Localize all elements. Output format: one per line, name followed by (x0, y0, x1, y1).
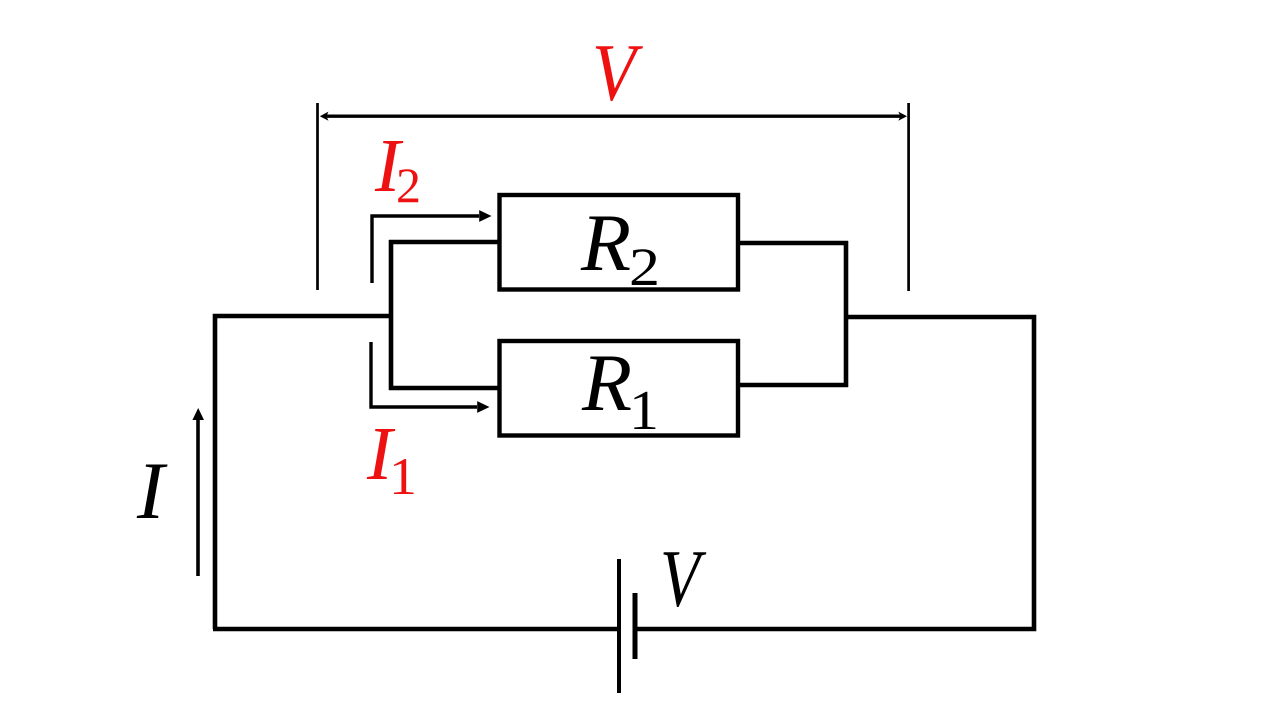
svg-text:1: 1 (629, 380, 659, 442)
svg-text:I: I (136, 445, 168, 536)
svg-text:V: V (592, 27, 643, 118)
svg-text:1: 1 (389, 448, 417, 506)
svg-text:R: R (581, 337, 632, 428)
svg-text:2: 2 (629, 237, 660, 297)
svg-text:V: V (660, 533, 706, 624)
svg-text:R: R (580, 197, 631, 288)
svg-text:2: 2 (396, 157, 421, 213)
